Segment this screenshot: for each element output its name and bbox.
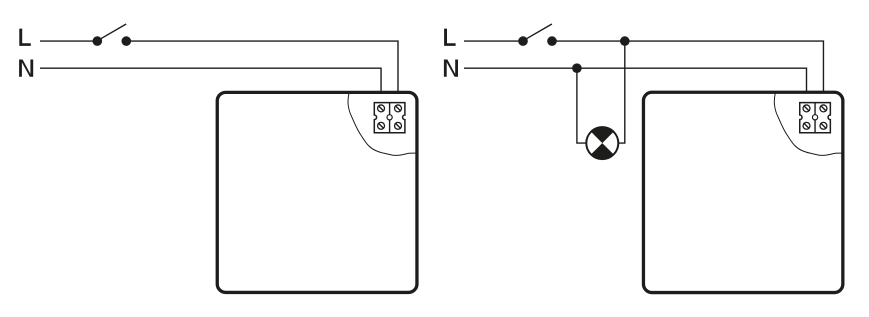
- wire: L feed from label to switch: [40, 40, 97, 42]
- center hole: [812, 115, 817, 120]
- lamp E1: [586, 127, 618, 159]
- net label N (left circuit): [19, 60, 33, 77]
- screw terminal (L, top-right): [820, 105, 827, 112]
- device body (flush-mount unit, left): [217, 92, 417, 292]
- junction: N branch to lamp: [572, 63, 582, 73]
- screw terminal (N, top-left): [803, 105, 810, 112]
- terminal block outline with side notches: [374, 103, 405, 133]
- screw terminal (bottom-left): [378, 122, 385, 129]
- block divider: [814, 103, 816, 133]
- lamp filled bottom quadrant: [591, 143, 614, 159]
- wire: N from label to device terminal (with down segment): [464, 68, 807, 107]
- terminal block X1 (left): [374, 103, 405, 133]
- wire: L from switch to device terminal (with down segment): [126, 41, 398, 107]
- switch lever: [524, 24, 552, 40]
- wire: L junction down to lamp: [618, 41, 625, 143]
- switch contact dot (left): [93, 36, 103, 46]
- block divider: [389, 103, 391, 133]
- screw terminal (L, top-right): [395, 105, 402, 112]
- wire: N from label to device terminal (with down segment): [40, 68, 381, 107]
- wire: L from switch to device terminal (with down segment): [552, 41, 823, 107]
- switch contact dot (left): [518, 36, 528, 46]
- wire: N junction down to lamp: [577, 68, 587, 143]
- switch lever: [98, 24, 126, 40]
- enclosure cutaway line (right): [774, 94, 844, 156]
- screw terminal (bottom-right): [820, 122, 827, 129]
- enclosure cutaway line (left): [348, 94, 418, 156]
- terminal block outline with side notches: [800, 103, 831, 133]
- net label L (right circuit): [444, 29, 456, 46]
- lamp filled top quadrant: [591, 127, 614, 143]
- junction: L branch to lamp: [620, 36, 630, 46]
- screw terminal (N, top-left): [378, 105, 385, 112]
- screw terminal (bottom-right): [395, 122, 402, 129]
- terminal block X2 (right): [800, 103, 831, 133]
- net label L (left circuit): [19, 29, 31, 46]
- switch contact dot (right): [547, 36, 557, 46]
- center hole: [387, 115, 392, 120]
- device body (flush-mount unit, right): [643, 92, 842, 292]
- screw terminal (bottom-left): [803, 122, 810, 129]
- net label N (right circuit): [444, 60, 458, 77]
- switch contact dot (right): [122, 36, 132, 46]
- switch S1 (left circuit): [93, 24, 132, 46]
- wire: L feed from label to switch: [464, 40, 523, 42]
- switch S2 (right circuit): [518, 24, 557, 46]
